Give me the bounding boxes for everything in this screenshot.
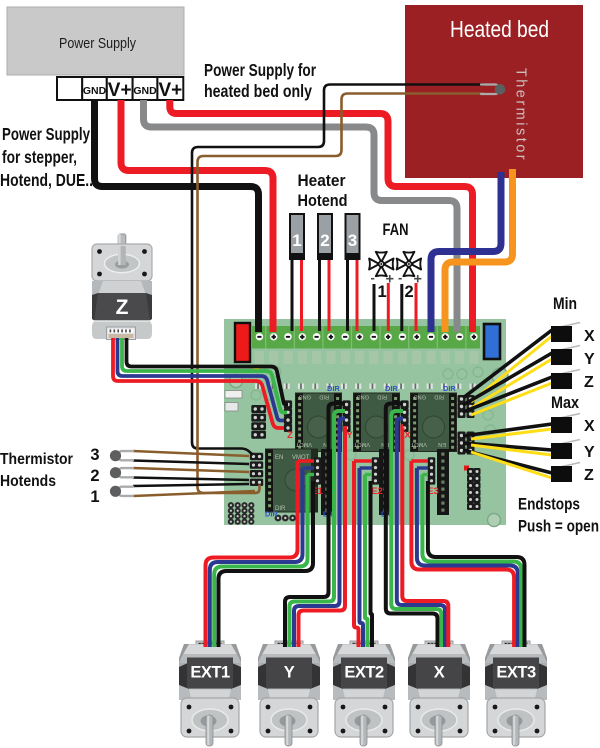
- stepper driver module B (top row): [353, 393, 400, 453]
- svg-text:Power Supply for: Power Supply for: [204, 60, 316, 80]
- svg-text:Push = open: Push = open: [518, 517, 599, 536]
- wire EXT2 red wire: [354, 461, 359, 647]
- svg-text:Hotend: Hotend: [298, 191, 348, 210]
- wire X blue wire: [397, 419, 445, 648]
- motor header pins E1: [314, 457, 322, 484]
- wire E3 hook blue: [417, 466, 428, 469]
- endstop switch Y min: [551, 346, 580, 366]
- wire EXT1 blue wire: [210, 468, 303, 647]
- endstop switch X min: [551, 323, 580, 343]
- svg-text:Min: Min: [553, 294, 577, 313]
- wire endstop X max black: [463, 424, 552, 436]
- svg-text:Y: Y: [584, 444, 595, 461]
- SMD resistor row: [255, 384, 476, 390]
- header block (aux2): [467, 468, 481, 510]
- wire PSU GND1 black to terminal 1: [95, 100, 259, 332]
- wire bed heater orange to terminal 14: [445, 169, 513, 332]
- svg-text:Z: Z: [584, 374, 594, 391]
- svg-text:VMOT: VMOT: [295, 441, 312, 447]
- svg-text:RID: RID: [377, 394, 387, 400]
- wire endstop Y max yellow: [471, 445, 552, 455]
- svg-text:VMOT: VMOT: [410, 441, 427, 447]
- wire heater 3 red wire: [356, 256, 359, 331]
- svg-text:GND: GND: [83, 85, 107, 97]
- wire thermistor T1 brown wire: [133, 491, 255, 496]
- motor header pins E2: [372, 457, 380, 484]
- wire EXT3 green wire: [422, 475, 521, 648]
- wire X red wire: [402, 426, 448, 647]
- heater cartridge 3: [345, 214, 361, 259]
- svg-text:Y: Y: [346, 430, 353, 441]
- wire EXT1 green wire: [214, 475, 307, 648]
- wire E2 hook green: [365, 473, 372, 476]
- wire EXT3 red wire: [411, 461, 514, 647]
- capacitor outlines: [251, 367, 495, 460]
- wire endstop Y max black: [463, 443, 552, 450]
- svg-text:Hotends: Hotends: [0, 473, 56, 490]
- wire PSU GND2 grey to terminal 15: [144, 100, 458, 332]
- motor header pins X: [400, 400, 408, 432]
- wire fan 1 plus wire: [387, 283, 390, 331]
- svg-text:GND: GND: [133, 85, 157, 97]
- wire heater 1 red wire: [300, 256, 303, 331]
- wire E3 hook green: [422, 473, 428, 476]
- svg-text:1: 1: [292, 231, 301, 250]
- wire EXT3 black wire: [428, 481, 525, 647]
- svg-text:2: 2: [320, 231, 329, 250]
- svg-text:Y: Y: [284, 664, 295, 682]
- endstop switch Z max: [551, 463, 580, 483]
- svg-text:VMOT: VMOT: [353, 441, 370, 447]
- wire EXT2 blue wire: [360, 468, 364, 647]
- thermistor header T0-T3: [250, 453, 263, 486]
- stepper motor EXT1: [179, 641, 241, 746]
- wire E1 hook blue: [303, 466, 315, 469]
- wire endstop Y min black: [463, 353, 552, 405]
- svg-text:EXT3: EXT3: [496, 664, 536, 682]
- fan numbers: [378, 283, 414, 301]
- wire thermistor T2 brown wire: [133, 468, 249, 472]
- svg-text:V+: V+: [158, 80, 182, 101]
- stepper driver module A (top row): [295, 393, 342, 453]
- svg-text:Power Supply: Power Supply: [59, 36, 137, 52]
- svg-text:EXT1: EXT1: [190, 664, 230, 682]
- wire bed heater blue to terminal 13: [431, 172, 501, 332]
- wire heater 3 black wire: [346, 256, 349, 331]
- wire E2 hook blue: [360, 466, 373, 469]
- stepper driver module D (bottom row, E1 socket): [265, 449, 318, 513]
- wire Z motor black wire: [127, 338, 289, 405]
- svg-text:1: 1: [90, 488, 99, 506]
- label: endstops push = open: [518, 495, 599, 536]
- label: power supply for stepper hotend due: [0, 124, 93, 190]
- wire bed thermistor brown: [198, 94, 485, 494]
- svg-text:Max: Max: [551, 393, 579, 412]
- wire EXT2 black wire: [371, 481, 373, 647]
- header block (aux): [251, 405, 266, 439]
- screw terminal strip: [252, 326, 480, 349]
- fuse F1 (red): [235, 323, 250, 362]
- wire thermistor T3 black wire: [133, 461, 249, 465]
- hotend thermistor 3: [110, 450, 133, 461]
- endstop switch Y max: [551, 440, 580, 460]
- stepper motor Y: [258, 641, 320, 746]
- heater cartridge 1: [289, 214, 305, 259]
- LED yellow: [254, 367, 260, 372]
- svg-text:EXT2: EXT2: [344, 664, 384, 682]
- svg-text:DIR: DIR: [443, 384, 456, 393]
- wire E2 hook red: [354, 459, 372, 462]
- endstop switch Z min: [551, 370, 580, 390]
- wire EXT1 black wire: [219, 481, 314, 647]
- female header strip E1: [321, 449, 333, 515]
- svg-text:FAN: FAN: [383, 220, 409, 239]
- svg-text:for stepper,: for stepper,: [2, 147, 77, 167]
- svg-text:GND: GND: [357, 394, 369, 400]
- wire endstop Y min yellow: [471, 359, 552, 408]
- svg-text:3: 3: [90, 446, 99, 464]
- wire fan 2 plus wire: [415, 283, 418, 331]
- power supply: [7, 7, 184, 75]
- wire endstop Z min black: [463, 377, 552, 412]
- wire PSU V+1 red to terminal 2: [121, 100, 273, 332]
- stepper motor EXT3: [485, 641, 547, 746]
- jumper block JP1: [225, 391, 242, 399]
- svg-text:Heater: Heater: [298, 171, 346, 190]
- DIR labels (blue) bottom row: [265, 510, 394, 519]
- wire endstop X max yellow: [471, 429, 552, 439]
- endstop switch labels: [584, 328, 595, 484]
- wire endstop Z max yellow: [471, 452, 552, 478]
- svg-text:Endstops: Endstops: [518, 495, 580, 514]
- svg-text:Z: Z: [584, 467, 594, 484]
- svg-text:Y: Y: [584, 351, 595, 368]
- svg-text:X: X: [584, 328, 595, 345]
- blue component (poly fuse): [484, 324, 500, 359]
- solder pads row: [255, 351, 479, 364]
- wire EXT2 green wire: [365, 475, 368, 648]
- svg-text:heated bed only: heated bed only: [204, 81, 312, 101]
- svg-text:Hotend, DUE..: Hotend, DUE..: [0, 170, 93, 190]
- female header strip E3: [437, 449, 449, 515]
- thermistor numbers 3 2 1: [90, 446, 99, 506]
- stepper motor X: [408, 641, 470, 746]
- heater cartridge 2: [317, 214, 333, 259]
- wire Y blue wire: [294, 419, 345, 648]
- wire endstop Z min yellow: [471, 383, 552, 415]
- hotend thermistor 1: [110, 486, 133, 497]
- mounting holes: [230, 368, 509, 527]
- svg-text:-: -: [398, 270, 402, 285]
- wire EXT3 blue wire: [417, 468, 518, 647]
- svg-text:V+: V+: [108, 80, 132, 101]
- svg-text:1: 1: [378, 283, 387, 301]
- endstop switch X max: [551, 414, 580, 434]
- svg-text:Heated bed: Heated bed: [450, 16, 549, 42]
- svg-text:+: +: [414, 272, 422, 288]
- wire endstop Z max black: [463, 450, 552, 473]
- motor header pins E3: [428, 457, 436, 484]
- 3-pin header: [275, 515, 296, 522]
- svg-text:RID: RID: [319, 394, 329, 400]
- endstop header MIN: [458, 395, 475, 418]
- svg-text:GND: GND: [299, 394, 311, 400]
- fan polarity marks: [371, 270, 422, 288]
- wire endstop X min black: [463, 330, 552, 398]
- svg-text:Thermistor: Thermistor: [0, 451, 73, 468]
- heated bed: [405, 5, 583, 178]
- wire X green wire: [391, 411, 441, 647]
- pin grid: [228, 502, 255, 525]
- svg-text:RID: RID: [434, 394, 444, 400]
- svg-text:Z: Z: [287, 430, 293, 441]
- wire heater 2 red wire: [328, 256, 331, 331]
- female header strip E2: [379, 449, 391, 515]
- wire E1 hook green: [308, 473, 315, 476]
- RADDS controller board PCB: [224, 319, 506, 525]
- label: heater hotend: [298, 171, 348, 210]
- wire PSU V+2 red to terminal 16: [170, 100, 473, 332]
- svg-text:EN: EN: [275, 455, 283, 461]
- wire Z motor red wire: [113, 338, 284, 428]
- motor header pins Y: [342, 400, 350, 432]
- svg-text:EN: EN: [438, 441, 446, 447]
- stepper driver module C (top row): [410, 393, 457, 453]
- motor header pins Z: [284, 400, 292, 432]
- wire EXT1 red wire: [206, 461, 298, 647]
- wire thermistor T3 brown wire: [133, 451, 249, 456]
- power supply terminal block GND/V+: [57, 77, 183, 101]
- svg-text:X: X: [404, 430, 411, 441]
- stepper motor Z: [92, 234, 152, 340]
- wire Y red wire: [299, 426, 346, 647]
- wire Z motor green wire: [122, 338, 287, 413]
- wire Y green wire: [290, 411, 346, 647]
- svg-text:Z: Z: [116, 296, 129, 319]
- svg-text:+: +: [386, 272, 394, 288]
- LED red: [464, 466, 469, 471]
- switch S1: [225, 403, 238, 412]
- svg-text:Thermistor: Thermistor: [513, 68, 529, 162]
- wire endstop X min yellow: [471, 336, 552, 402]
- wire thermistor T1 black wire: [133, 484, 249, 486]
- svg-text:DIR: DIR: [385, 384, 398, 393]
- svg-text:E2: E2: [371, 486, 383, 497]
- svg-text:DIR: DIR: [265, 510, 278, 519]
- fan 1 icon: [369, 252, 393, 276]
- label: thermistor hotends: [0, 451, 73, 490]
- hotend thermistor 2: [110, 467, 133, 478]
- wire X black wire: [386, 404, 438, 648]
- bed thermistor: [481, 84, 505, 95]
- svg-text:GND: GND: [414, 394, 426, 400]
- wire thermistor T2 black wire: [133, 478, 249, 481]
- wire Y black wire: [285, 404, 345, 648]
- svg-text:Power Supply: Power Supply: [2, 124, 90, 144]
- stepper motor EXT2: [333, 641, 395, 746]
- svg-text:DIR: DIR: [327, 384, 340, 393]
- wire fan 1 minus wire: [373, 284, 376, 331]
- wire E1 hook red: [298, 459, 315, 462]
- wire E3 hook red: [411, 459, 428, 462]
- svg-text:-: -: [371, 270, 375, 285]
- svg-text:2: 2: [405, 283, 414, 301]
- wire Z motor blue wire: [118, 338, 285, 421]
- endstop header MAX: [458, 432, 475, 455]
- svg-text:X: X: [434, 664, 445, 682]
- wire heater 1 black wire: [291, 256, 294, 331]
- svg-text:3: 3: [348, 231, 357, 250]
- svg-text:X: X: [584, 418, 595, 435]
- wire fan 2 minus wire: [400, 284, 403, 331]
- axis labels Z Y X E1 E2 E3 (red): [287, 430, 439, 497]
- svg-text:2: 2: [90, 467, 99, 485]
- DIR labels (blue) top row: [327, 384, 456, 393]
- wire heater 2 black wire: [318, 256, 321, 331]
- label: power supply for heated bed only: [204, 60, 316, 101]
- fan 2 icon: [397, 252, 421, 276]
- wire bed thermistor black: [192, 85, 484, 456]
